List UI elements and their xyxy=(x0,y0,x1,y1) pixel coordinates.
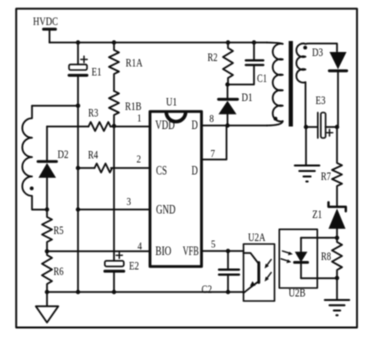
svg-text:3: 3 xyxy=(127,196,132,208)
svg-text:C2: C2 xyxy=(202,282,213,296)
wire R4 to pin2 xyxy=(111,167,150,169)
optocoupler U2B photodiode xyxy=(279,229,317,299)
node HVDC terminal xyxy=(44,28,56,31)
node junction bottom C2 column xyxy=(226,290,230,294)
wire secondary top to D3 xyxy=(306,44,338,52)
wire E1 top lead xyxy=(77,43,79,65)
node junction pin3/E1 column xyxy=(76,207,80,211)
diode D2 xyxy=(38,127,69,210)
svg-text:D1: D1 xyxy=(242,90,253,104)
node junction R6 bottom xyxy=(45,290,49,294)
node primary polarity dot xyxy=(274,117,278,121)
svg-text:BIO: BIO xyxy=(155,243,171,258)
resistor R1A xyxy=(109,43,143,92)
node junction pin8/D1 xyxy=(225,123,229,127)
node junction bottom E2 column xyxy=(112,290,116,294)
node junction top E1 xyxy=(76,40,80,44)
capacitor E3 xyxy=(306,93,337,138)
node junction R5/R6/BIO xyxy=(45,249,49,253)
node junction Z1/R8/U2B top xyxy=(335,236,339,240)
svg-text:5: 5 xyxy=(211,239,216,251)
wire pin5 row xyxy=(202,250,244,252)
svg-text:R3: R3 xyxy=(88,105,98,119)
ground open triangle xyxy=(36,292,59,323)
ground earth right xyxy=(325,300,349,315)
svg-text:Z1: Z1 xyxy=(312,207,322,221)
svg-text:CS: CS xyxy=(156,163,167,178)
resistor R2 xyxy=(208,43,234,85)
inductor aux winding xyxy=(22,106,47,210)
svg-text:GND: GND xyxy=(156,202,176,217)
node aux winding polarity dot xyxy=(30,187,34,191)
svg-text:U2A: U2A xyxy=(248,230,266,244)
optocoupler U2A phototransistor xyxy=(244,230,275,301)
svg-text:D: D xyxy=(192,163,198,178)
svg-text:4: 4 xyxy=(138,241,143,253)
node junction bottom E1 column xyxy=(76,290,80,294)
svg-text:E1: E1 xyxy=(92,65,102,79)
resistor R1B xyxy=(109,91,142,126)
resistor R3 xyxy=(88,105,110,131)
node junction top R2 xyxy=(226,40,230,44)
node junction top C1 xyxy=(252,40,256,44)
diode D3 xyxy=(312,45,347,127)
svg-text:C1: C1 xyxy=(257,71,267,85)
wire pin2 row xyxy=(78,167,95,169)
node junction D1/R2/C1 xyxy=(225,82,229,86)
svg-text:R1A: R1A xyxy=(126,56,143,70)
wire E1 bottom column xyxy=(77,75,79,292)
svg-text:R1B: R1B xyxy=(125,99,142,113)
node junction E3 left xyxy=(304,125,308,129)
node junction R8/U2B bottom xyxy=(335,276,339,280)
diode D1 xyxy=(219,85,253,126)
wire pin4 row xyxy=(47,250,150,252)
capacitor E2 xyxy=(105,251,139,292)
wire pin3 row xyxy=(78,209,150,211)
resistor R7 xyxy=(321,127,342,207)
svg-text:8: 8 xyxy=(209,113,214,125)
capacitor C1 xyxy=(228,43,268,86)
capacitor C2 xyxy=(202,251,240,296)
svg-text:1: 1 xyxy=(137,113,142,125)
wire R1 column down to E2 xyxy=(113,126,115,251)
wire top rail xyxy=(50,42,268,44)
transformer core xyxy=(289,41,293,127)
node junction R4 left xyxy=(76,166,80,170)
svg-text:E2: E2 xyxy=(129,259,139,273)
resistor R8 xyxy=(321,238,342,279)
svg-text:VDD: VDD xyxy=(155,117,175,132)
wire pin1 row xyxy=(47,126,89,128)
svg-text:7: 7 xyxy=(211,148,216,160)
svg-text:R2: R2 xyxy=(208,50,218,64)
svg-text:D: D xyxy=(192,117,198,132)
node junction D2/R5 xyxy=(45,207,49,211)
wire HVDC down xyxy=(49,30,51,42)
node junction pin5/C2 xyxy=(226,249,230,253)
svg-text:HVDC: HVDC xyxy=(33,14,58,28)
svg-text:R4: R4 xyxy=(88,148,98,162)
svg-text:2: 2 xyxy=(137,154,142,166)
wire aux winding top xyxy=(32,105,78,107)
resistor R6 xyxy=(42,251,64,292)
node junction aux/E1 column xyxy=(76,104,80,108)
svg-text:E3: E3 xyxy=(316,93,326,107)
zener diode Z1 xyxy=(312,202,346,237)
wire R8 to ground xyxy=(336,278,338,300)
svg-text:R7: R7 xyxy=(321,169,331,183)
resistor R4 xyxy=(88,148,112,173)
svg-text:R8: R8 xyxy=(321,249,331,263)
svg-text:R6: R6 xyxy=(54,264,64,278)
resistor R5 xyxy=(42,210,64,252)
wire R3 to pin1 xyxy=(111,126,151,128)
wire bottom rail xyxy=(47,291,244,293)
svg-text:U2B: U2B xyxy=(289,286,306,300)
transformer primary winding xyxy=(267,43,283,126)
wire secondary ground stub xyxy=(305,127,307,165)
node junction pin1/R1B xyxy=(112,124,116,128)
svg-text:R5: R5 xyxy=(54,223,64,237)
capacitor E1 xyxy=(69,56,102,78)
svg-text:U1: U1 xyxy=(166,95,177,109)
wire pin7 to pin8 node xyxy=(202,126,227,160)
wire pin8 row xyxy=(202,125,268,127)
node junction top R1A xyxy=(112,40,116,44)
svg-text:VFB: VFB xyxy=(183,243,199,258)
svg-text:D2: D2 xyxy=(58,147,69,161)
node junction E3 right xyxy=(335,125,339,129)
ground earth secondary xyxy=(295,166,320,182)
svg-text:D3: D3 xyxy=(312,45,323,59)
op-amp U1 IC body xyxy=(150,95,202,267)
wire U2B cathode to R8 bottom node xyxy=(301,277,337,279)
wire U2B anode to Z1/R8 node xyxy=(301,237,337,239)
transformer secondary winding xyxy=(296,43,305,127)
node secondary polarity dot xyxy=(303,46,307,50)
